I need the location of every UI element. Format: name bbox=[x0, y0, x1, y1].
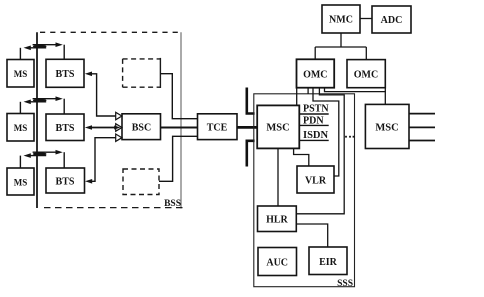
svg-text:OMC: OMC bbox=[354, 70, 378, 81]
svg-text:MS: MS bbox=[14, 178, 28, 188]
wire lower dashed box to TCE bbox=[159, 136, 198, 181]
svg-text:VLR: VLR bbox=[305, 176, 327, 187]
BSC input triangle top bbox=[116, 112, 122, 120]
wire BTS1 to BSC bbox=[85, 72, 116, 117]
box MSC left bbox=[257, 105, 299, 148]
box OMC2 bbox=[347, 60, 385, 88]
svg-text:AUC: AUC bbox=[266, 258, 288, 269]
BSS region border bbox=[37, 32, 184, 208]
wire MSC right stub 1 bbox=[409, 113, 435, 115]
svg-text:MSC: MSC bbox=[266, 123, 289, 134]
box MS2 bbox=[7, 114, 34, 142]
dashed box upper (other BSC) bbox=[123, 58, 161, 88]
box HLR bbox=[258, 206, 297, 232]
wire upper dashed box to TCE bbox=[160, 74, 197, 119]
svg-text:BSS: BSS bbox=[164, 199, 181, 209]
box EIR bbox=[309, 247, 347, 275]
wire BTS3 to BSC bbox=[85, 138, 116, 184]
BSC input triangle middle arrowhead bbox=[114, 126, 120, 130]
box TCE bbox=[198, 114, 238, 140]
dashed box lower (other BSC) bbox=[123, 169, 159, 195]
box BTS3 bbox=[46, 168, 85, 193]
wire MSC right stub 3 bbox=[409, 140, 435, 142]
svg-text:BSC: BSC bbox=[132, 123, 151, 134]
box NMC bbox=[322, 5, 360, 33]
box ADC bbox=[372, 6, 411, 33]
wire OMC1 to MSC bbox=[296, 88, 298, 106]
wire HLR to EIR bbox=[296, 224, 327, 247]
svg-text:SSS: SSS bbox=[337, 279, 353, 289]
box OMC1 bbox=[297, 59, 335, 87]
BSC input triangle middle bbox=[116, 124, 122, 132]
wire OMC1 to VLR bbox=[313, 88, 339, 176]
box BTS1 bbox=[46, 59, 84, 87]
SSS region border bbox=[254, 94, 355, 287]
box MS1 bbox=[7, 60, 34, 88]
wire NMC to ADC bbox=[360, 18, 372, 20]
wire NMC to OMCs bbox=[315, 33, 366, 60]
A interface bracket upper bbox=[247, 88, 255, 114]
svg-text:ISDN: ISDN bbox=[303, 130, 329, 141]
svg-text:MS: MS bbox=[14, 123, 28, 133]
wire MSC to HLR bbox=[277, 148, 279, 206]
box BTS2 bbox=[46, 114, 84, 141]
box MS3 bbox=[7, 168, 34, 195]
box VLR bbox=[297, 166, 334, 193]
svg-text:BTS: BTS bbox=[56, 69, 75, 80]
svg-text:MSC: MSC bbox=[375, 123, 398, 134]
radio link 1 arrows and lens bbox=[20, 42, 64, 59]
wire OMC2 stub bbox=[384, 88, 386, 92]
svg-text:MS: MS bbox=[14, 69, 28, 79]
wire OMC to MSC2 bbox=[325, 88, 386, 105]
svg-text:HLR: HLR bbox=[266, 215, 288, 226]
svg-text:BTS: BTS bbox=[56, 123, 75, 134]
wire OMC1 to HLR bbox=[296, 88, 344, 214]
wire TCE to MSC (A interface, thick) bbox=[237, 126, 257, 129]
BSC input triangle bottom bbox=[116, 134, 122, 141]
wire BTS2 to BSC bbox=[85, 125, 116, 130]
svg-text:ADC: ADC bbox=[381, 15, 403, 26]
svg-text:BTS: BTS bbox=[56, 177, 75, 188]
dots ellipsis bbox=[345, 136, 354, 138]
svg-text:PSTN: PSTN bbox=[303, 104, 329, 115]
radio link 3 arrows and lens bbox=[20, 150, 64, 168]
svg-text:EIR: EIR bbox=[319, 257, 338, 268]
svg-text:NMC: NMC bbox=[329, 15, 353, 26]
radio link 2 arrows and lens bbox=[20, 96, 64, 114]
A interface bracket lower bbox=[247, 141, 255, 167]
wire MSC to VLR bbox=[294, 148, 309, 166]
wire OMC1 to SSS bbox=[307, 88, 309, 94]
wire MSC right stub 2 bbox=[409, 126, 435, 128]
box AUC bbox=[258, 248, 297, 276]
wire BSC to TCE bbox=[161, 127, 198, 129]
box MSC right bbox=[365, 104, 409, 148]
box BSC bbox=[122, 114, 161, 140]
svg-text:OMC: OMC bbox=[303, 70, 327, 81]
svg-text:TCE: TCE bbox=[207, 123, 228, 134]
